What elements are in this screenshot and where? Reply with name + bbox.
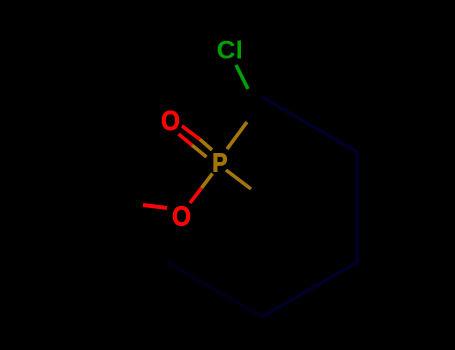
wire: P=O double bond upper line, olive half xyxy=(200,139,212,150)
svg-text:Cl: Cl xyxy=(217,37,243,65)
wire: olive half of P-C(ring) bond xyxy=(226,170,251,189)
wire: P=O double bond upper line, red half xyxy=(182,126,200,139)
wire: olive half of P-C1 bond xyxy=(227,122,247,149)
svg-text:O: O xyxy=(161,105,180,136)
benzene ring right side (faint navy) xyxy=(262,97,357,317)
wire: P-O single bond olive half xyxy=(202,174,213,189)
svg-text:O: O xyxy=(172,201,191,232)
wire: P-O single bond red half xyxy=(190,188,202,203)
benzene ring bottom-left edge (fainter) xyxy=(167,262,262,317)
wire: P=O double bond lower line, red half xyxy=(179,134,193,145)
wire: P=O double bond lower line, olive half xyxy=(192,145,207,157)
wire: green half of Cl-C1 bond xyxy=(236,65,248,89)
svg-text:P: P xyxy=(212,150,227,178)
wire: O-CH2 red half bond xyxy=(143,205,167,208)
